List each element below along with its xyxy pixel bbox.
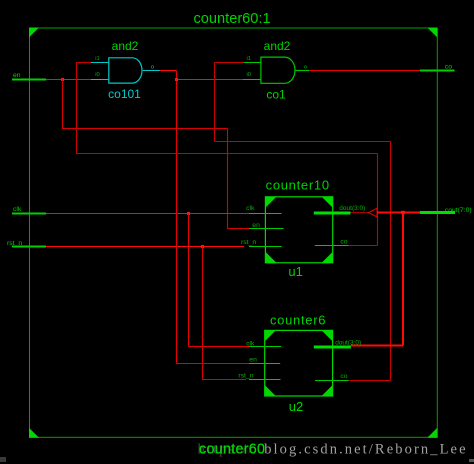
port co stub — [420, 70, 455, 72]
svg-text:co101: co101 — [108, 87, 141, 101]
svg-text:i0: i0 — [95, 72, 100, 78]
u2 corner triangle top-left — [265, 330, 276, 341]
net clk: wire into u2.clk — [189, 346, 252, 348]
u1 corner triangle bottom-right — [322, 252, 333, 263]
net rst_n: wire port to u1.rst_n — [46, 246, 244, 248]
svg-text:i1: i1 — [95, 56, 100, 62]
svg-text:u2: u2 — [289, 399, 303, 414]
net en: wire vertical x62 down — [62, 80, 64, 129]
net en: wire vertical x226.8 — [227, 129, 229, 229]
u2 pin rst_n stub — [249, 379, 281, 381]
net co101_o: junction at (176.4,79) — [175, 78, 178, 81]
watermark fragment bottom-right — [469, 459, 474, 462]
net rst_n: junction at (201.9,246.9) — [201, 245, 204, 248]
net rst_n: wire into u2.rst_n — [202, 379, 246, 381]
svg-text:clk: clk — [13, 206, 22, 213]
svg-text:co: co — [445, 63, 452, 70]
net u2_co: wire from u2.co stub — [349, 380, 391, 382]
watermark fragment bottom-left — [0, 457, 6, 462]
svg-text:clk: clk — [246, 205, 255, 212]
u2 corner triangle bottom-left — [265, 385, 276, 396]
net u2_co: horizontal y141.6 left — [215, 141, 391, 143]
net u1_co: vertical x76 up — [76, 63, 78, 154]
bus cout: vertical x402.9 down — [402, 213, 404, 346]
u1 pin dout bus stub — [314, 212, 351, 215]
svg-text:i1: i1 — [246, 56, 251, 62]
bus cout: junction at (402.9,212.6) — [401, 211, 404, 214]
net co: wire co1.o to port co — [309, 70, 420, 72]
svg-text:en: en — [13, 72, 21, 79]
svg-text:i0: i0 — [246, 72, 251, 78]
svg-text:blog.csdn.net/Reborn_Lee: blog.csdn.net/Reborn_Lee — [264, 442, 467, 458]
net en: junction at (61.8,79) — [61, 78, 64, 81]
net co101_o: branch to co1.i0 — [177, 79, 244, 81]
bus arrow triangle — [369, 208, 378, 217]
svg-text:u1: u1 — [288, 264, 302, 279]
co1 pin o stub — [295, 70, 309, 72]
port cout(7:0) bus stub — [420, 211, 455, 214]
co101 pin i0 stub — [91, 79, 109, 81]
net u1_co: horizontal y153.5 left — [76, 153, 378, 155]
port clk stub — [12, 213, 46, 215]
and-gate co1 body — [261, 57, 295, 83]
net u1_co: wire into co101.i1 — [76, 62, 91, 64]
svg-text:and2: and2 — [264, 39, 291, 53]
border corner bottom-left — [29, 428, 39, 438]
watermark prefix overlay faint — [198, 442, 255, 458]
u2 corner triangle bottom-right — [322, 385, 333, 396]
net u2_co: vertical x390.3 up — [390, 142, 392, 381]
svg-text:counter6: counter6 — [270, 312, 326, 327]
u1 pin rst_n stub — [249, 246, 282, 248]
svg-text:and2: and2 — [112, 39, 139, 53]
svg-text:dout(3:0): dout(3:0) — [339, 205, 365, 212]
net en: wire port to co101.i0 — [46, 79, 91, 81]
net rst_n: wire vertical x201.9 down — [202, 247, 204, 380]
net clk: wire vertical x188.5 down — [188, 214, 190, 347]
svg-text:counter10: counter10 — [266, 178, 330, 193]
net clk: junction at (188.5,213.1) — [187, 212, 190, 215]
net co101_o: wire into u2.en — [177, 363, 250, 365]
net u2_co: vertical x214.4 up — [214, 63, 216, 142]
u1 corner triangle bottom-left — [265, 252, 276, 263]
bus cout: horizontal y345.6 to u2.dout — [351, 345, 403, 347]
sheet border — [30, 28, 438, 437]
border corner top-left — [29, 28, 39, 38]
watermark blog.csdn.net/Reborn_Lee — [264, 442, 467, 458]
u1 pin clk stub — [249, 213, 282, 215]
net clk: wire port to u1.clk — [46, 213, 250, 215]
co101 pin i1 stub — [91, 62, 109, 64]
u1 corner triangle top-left — [265, 197, 276, 208]
svg-text:dout(3:0): dout(3:0) — [335, 340, 361, 347]
bus u1.dout lead — [351, 212, 369, 214]
svg-text:o: o — [151, 65, 154, 71]
watermark prefix fragment — [198, 442, 255, 458]
co101 pin o stub — [143, 70, 160, 72]
block u1 body — [265, 197, 332, 263]
svg-text:co1: co1 — [266, 88, 286, 102]
and-gate co101 body (selected, cyan) — [109, 58, 142, 83]
port rst_n stub — [12, 246, 46, 248]
net co101_o: vertical x176.4 down to u2.en — [176, 71, 178, 364]
svg-text:https://: https:// — [198, 442, 255, 458]
svg-text:rst_n: rst_n — [238, 372, 253, 379]
net u1_co: vertical x377.4 up — [377, 154, 379, 246]
svg-text:co: co — [340, 239, 347, 246]
co1 pin i0 stub — [243, 79, 261, 81]
u2 pin dout bus stub — [314, 346, 351, 349]
u1 pin en stub — [249, 228, 284, 230]
u1 pin co stub — [315, 245, 349, 247]
border corner top-right — [427, 28, 437, 38]
block u2 body — [265, 330, 333, 396]
u2 pin en stub — [249, 363, 280, 365]
u1 corner triangle top-right — [322, 197, 333, 208]
svg-text:en: en — [249, 356, 257, 363]
svg-text:rst_n: rst_n — [241, 239, 256, 246]
net u1_co: wire from u1.co stub — [349, 245, 378, 247]
svg-text:o: o — [304, 65, 307, 71]
u2 pin clk stub — [249, 346, 281, 348]
port en stub — [12, 79, 46, 81]
net en: wire horizontal y128.8 — [62, 128, 228, 130]
bus cout: horizontal to port — [377, 212, 420, 214]
net u2_co: wire into co1.i1 — [215, 62, 244, 64]
u2 corner triangle top-right — [322, 330, 333, 341]
co1 pin i1 stub — [244, 62, 261, 64]
svg-text:counter60:1: counter60:1 — [194, 11, 271, 27]
svg-text:co: co — [340, 373, 347, 380]
border corner bottom-right — [427, 428, 437, 438]
u2 pin co stub — [315, 380, 349, 382]
net co101_o: wire from gate output — [160, 70, 177, 72]
net en: wire into u1.en — [227, 228, 252, 230]
